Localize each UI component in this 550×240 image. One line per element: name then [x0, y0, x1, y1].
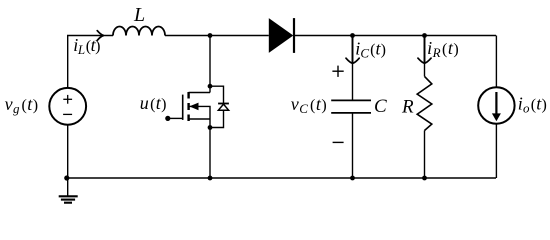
svg-text:iL(t): iL(t): [73, 35, 100, 57]
svg-text:R: R: [401, 96, 414, 117]
svg-text:vC(t): vC(t): [291, 94, 327, 116]
svg-text:vg(t): vg(t): [5, 94, 39, 116]
svg-text:C: C: [374, 96, 387, 117]
svg-text:u(t): u(t): [140, 93, 167, 113]
svg-text:iC(t): iC(t): [355, 39, 386, 61]
svg-text:iR(t): iR(t): [427, 38, 459, 60]
svg-text:io(t): io(t): [518, 94, 547, 116]
svg-text:L: L: [133, 4, 145, 26]
